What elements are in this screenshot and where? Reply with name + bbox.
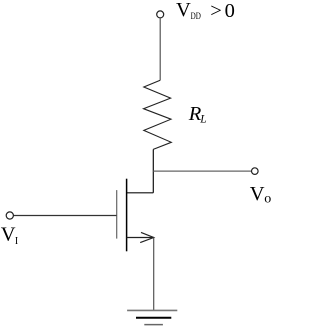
resistor RL (144, 80, 172, 149)
transistor Q1 source arrow (140, 232, 154, 242)
ground bar 3 (144, 324, 163, 326)
svg-text:V: V (250, 183, 265, 205)
svg-text:V: V (1, 223, 16, 245)
wire input to gate (14, 215, 117, 217)
transistor Q1 drain lead (127, 192, 154, 194)
transistor Q1 gate plate (116, 190, 118, 239)
svg-text:>: > (210, 0, 222, 22)
svg-text:0: 0 (225, 0, 235, 22)
wire source to ground (153, 238, 155, 311)
wire drain to output (153, 170, 251, 172)
svg-text:I: I (15, 236, 18, 247)
transistor Q1 channel (126, 179, 128, 252)
svg-text:DD: DD (191, 12, 201, 22)
wire VDD to resistor (159, 18, 161, 80)
svg-text:o: o (264, 192, 271, 207)
transistor Q1 source lead (127, 237, 154, 239)
svg-text:L: L (199, 113, 206, 125)
svg-text:V: V (176, 0, 191, 21)
wire resistor to drain (152, 149, 154, 192)
ground bar 2 (136, 317, 171, 319)
ground bar 1 (127, 309, 177, 311)
terminal VO (252, 168, 259, 175)
terminal VDD (157, 11, 164, 18)
terminal VI (6, 212, 13, 219)
